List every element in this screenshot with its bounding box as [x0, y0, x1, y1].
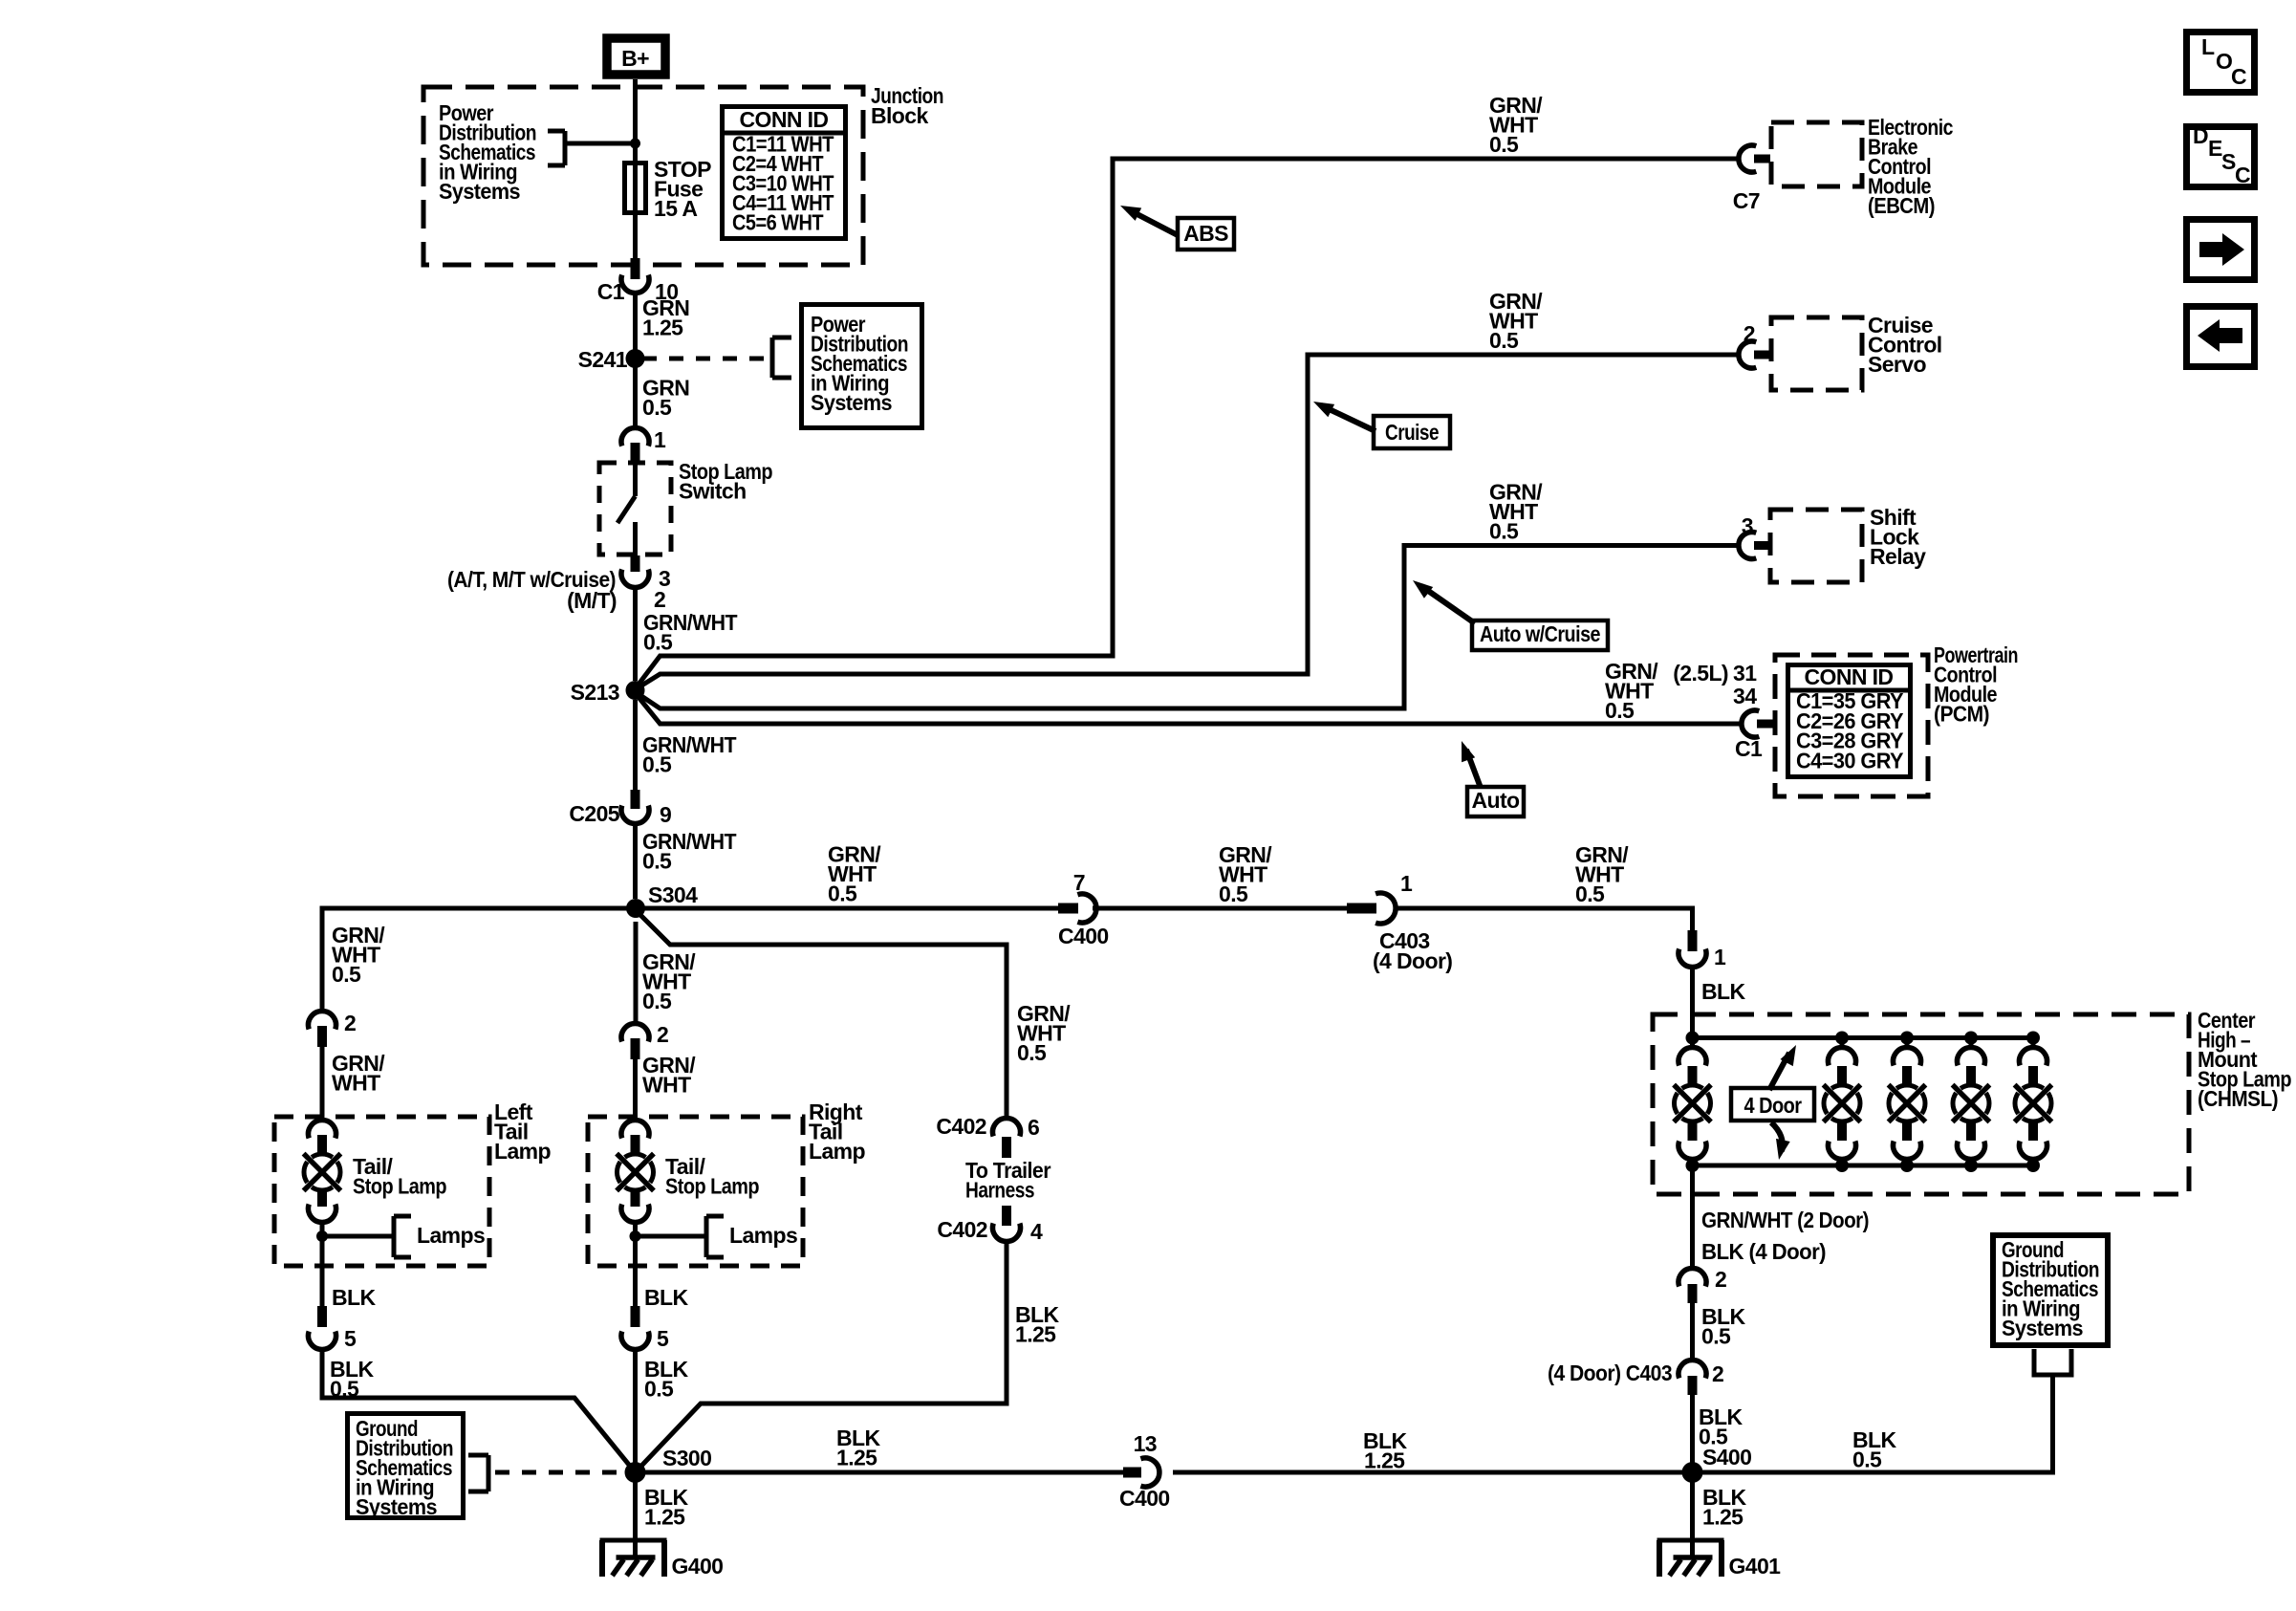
svg-text:0.5: 0.5	[642, 395, 672, 420]
svg-text:G401: G401	[1729, 1554, 1782, 1578]
svg-text:1: 1	[1714, 945, 1726, 969]
svg-text:C5=6 WHT: C5=6 WHT	[732, 210, 823, 235]
svg-text:0.5: 0.5	[642, 752, 672, 777]
svg-text:Stop Lamp: Stop Lamp	[353, 1174, 446, 1199]
svg-text:2: 2	[1712, 1361, 1723, 1386]
svg-text:4: 4	[1030, 1219, 1043, 1244]
svg-text:1.25: 1.25	[1015, 1322, 1056, 1347]
svg-text:GRN/WHT (2 Door): GRN/WHT (2 Door)	[1701, 1208, 1869, 1232]
svg-text:9: 9	[660, 802, 671, 827]
svg-text:0.5: 0.5	[1489, 328, 1519, 353]
svg-text:ABS: ABS	[1183, 221, 1228, 246]
svg-text:5: 5	[344, 1326, 357, 1351]
svg-text:0.5: 0.5	[643, 630, 673, 655]
svg-text:0.5: 0.5	[1852, 1448, 1882, 1472]
svg-text:2: 2	[1744, 321, 1755, 346]
svg-text:Systems: Systems	[356, 1494, 437, 1519]
svg-text:1.25: 1.25	[644, 1505, 685, 1530]
svg-text:Systems: Systems	[2002, 1316, 2083, 1340]
svg-text:13: 13	[1134, 1431, 1157, 1456]
svg-text:O: O	[2216, 49, 2232, 74]
svg-text:0.5: 0.5	[1605, 698, 1635, 723]
svg-text:S241: S241	[578, 347, 628, 372]
svg-text:BLK: BLK	[644, 1285, 688, 1310]
svg-text:S213: S213	[571, 680, 619, 705]
svg-text:(4 Door): (4 Door)	[1373, 948, 1452, 973]
svg-text:B+: B+	[621, 46, 649, 71]
svg-text:E: E	[2208, 136, 2222, 161]
svg-text:BLK: BLK	[1701, 979, 1745, 1004]
svg-text:Lamp: Lamp	[494, 1139, 551, 1164]
svg-text:31: 31	[1733, 661, 1757, 686]
svg-text:0.5: 0.5	[1575, 882, 1605, 906]
svg-text:6: 6	[1028, 1115, 1039, 1140]
svg-text:Harness: Harness	[965, 1178, 1034, 1203]
svg-text:C402: C402	[936, 1114, 986, 1139]
svg-text:34: 34	[1733, 684, 1757, 708]
svg-text:C1: C1	[1735, 736, 1763, 761]
svg-text:0.5: 0.5	[1219, 882, 1248, 906]
svg-text:1.25: 1.25	[642, 316, 683, 340]
svg-text:CONN ID: CONN ID	[1805, 664, 1894, 689]
svg-text:S: S	[2221, 149, 2236, 174]
svg-text:2: 2	[344, 1011, 356, 1035]
svg-text:Systems: Systems	[811, 390, 892, 415]
svg-text:5: 5	[657, 1326, 669, 1351]
svg-text:C1: C1	[597, 279, 625, 304]
svg-text:2: 2	[657, 1022, 668, 1047]
svg-text:Auto w/Cruise: Auto w/Cruise	[1480, 621, 1600, 646]
svg-text:4 Door: 4 Door	[1744, 1093, 1803, 1118]
svg-text:0.5: 0.5	[1489, 519, 1519, 544]
svg-text:1.25: 1.25	[1364, 1448, 1405, 1473]
svg-text:0.5: 0.5	[642, 849, 672, 874]
svg-text:Switch: Switch	[679, 479, 747, 504]
svg-text:15 A: 15 A	[654, 196, 697, 221]
svg-text:Stop Lamp: Stop Lamp	[665, 1174, 759, 1199]
svg-text:Lamps: Lamps	[729, 1223, 797, 1248]
svg-text:CONN ID: CONN ID	[740, 107, 829, 132]
svg-text:0.5: 0.5	[1489, 132, 1519, 157]
svg-text:D: D	[2193, 123, 2208, 148]
svg-text:Lamps: Lamps	[417, 1223, 485, 1248]
svg-text:C7: C7	[1733, 188, 1760, 213]
svg-text:C400: C400	[1119, 1486, 1170, 1511]
svg-text:0.5: 0.5	[332, 962, 361, 987]
svg-text:Lamp: Lamp	[809, 1139, 865, 1164]
svg-text:(CHMSL): (CHMSL)	[2198, 1086, 2278, 1111]
svg-text:(2.5L): (2.5L)	[1673, 661, 1728, 686]
svg-text:(M/T): (M/T)	[567, 588, 617, 613]
svg-text:C4=30 GRY: C4=30 GRY	[1796, 748, 1903, 773]
svg-text:(PCM): (PCM)	[1934, 702, 1989, 727]
svg-text:S300: S300	[662, 1446, 711, 1470]
svg-text:WHT: WHT	[642, 1073, 691, 1098]
svg-text:L: L	[2201, 34, 2215, 59]
svg-text:3: 3	[1742, 513, 1753, 538]
svg-text:0.5: 0.5	[828, 882, 857, 906]
svg-text:S304: S304	[648, 882, 698, 907]
svg-text:C205: C205	[569, 801, 619, 826]
svg-text:C402: C402	[937, 1217, 987, 1242]
svg-text:Block: Block	[871, 103, 928, 128]
svg-text:0.5: 0.5	[644, 1377, 674, 1402]
svg-text:(EBCM): (EBCM)	[1868, 193, 1935, 218]
svg-text:Auto: Auto	[1472, 788, 1521, 813]
svg-text:BLK: BLK	[332, 1285, 376, 1310]
svg-text:G400: G400	[672, 1554, 724, 1578]
svg-text:Systems: Systems	[439, 179, 520, 204]
svg-text:BLK (4 Door): BLK (4 Door)	[1701, 1239, 1826, 1264]
svg-text:1: 1	[654, 427, 666, 452]
svg-text:1.25: 1.25	[1702, 1505, 1744, 1530]
svg-text:C: C	[2235, 163, 2250, 187]
svg-text:0.5: 0.5	[642, 989, 672, 1013]
svg-text:(4 Door) C403: (4 Door) C403	[1548, 1361, 1672, 1385]
svg-text:Servo: Servo	[1868, 352, 1926, 377]
svg-text:7: 7	[1073, 870, 1085, 895]
svg-text:WHT: WHT	[332, 1071, 380, 1096]
svg-text:1.25: 1.25	[836, 1446, 877, 1470]
svg-text:S400: S400	[1702, 1445, 1751, 1469]
svg-text:2: 2	[654, 587, 665, 612]
svg-text:C: C	[2231, 64, 2246, 89]
svg-text:2: 2	[1715, 1267, 1726, 1292]
svg-text:0.5: 0.5	[1701, 1324, 1731, 1349]
svg-text:C400: C400	[1058, 924, 1109, 948]
svg-text:Relay: Relay	[1870, 544, 1926, 569]
svg-text:1: 1	[1400, 871, 1413, 896]
svg-text:Cruise: Cruise	[1385, 420, 1439, 445]
svg-text:0.5: 0.5	[1017, 1040, 1047, 1065]
